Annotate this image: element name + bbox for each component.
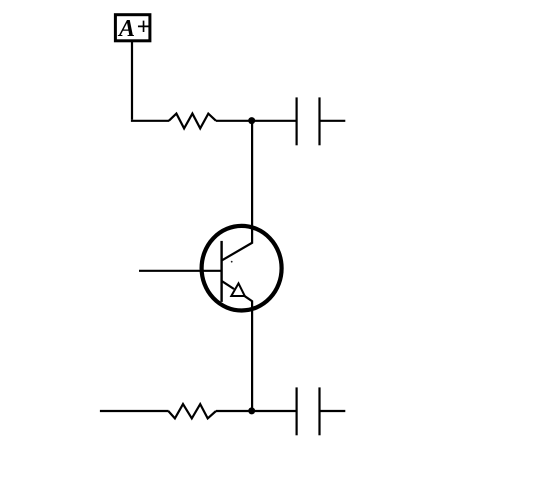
node bottom junction [248, 407, 255, 414]
node top junction [248, 117, 255, 124]
base bar [220, 241, 222, 302]
transistor Q1 [202, 226, 282, 311]
emitter diagonal upper [222, 281, 234, 289]
wire resistor R1 to node [216, 120, 252, 122]
wire node to capacitor C1 [252, 120, 296, 122]
resistor R2 [168, 404, 216, 418]
capacitor C1 [297, 97, 320, 145]
wire emitter vertical down to bottom rail [251, 301, 253, 411]
stray dot [231, 261, 233, 263]
wire capacitor C1 right lead [321, 120, 346, 122]
wire resistor R2 to node [216, 410, 252, 412]
svg-text:+: + [137, 15, 151, 41]
capacitor C2 [297, 387, 320, 435]
wire collector vertical from node into transistor [251, 121, 253, 244]
wire from A+ terminal down to top rail corner [131, 42, 133, 120]
emitter diagonal lower [245, 296, 253, 301]
emitter arrow triangle [231, 283, 245, 296]
wire capacitor C2 right lead [321, 410, 346, 412]
wire bottom rail left segment [100, 410, 169, 412]
transistor body circle [202, 226, 282, 311]
terminal A+ [115, 15, 150, 43]
collector diagonal [222, 243, 253, 261]
wire base lead [139, 270, 221, 272]
resistor R1 [169, 114, 216, 129]
wire node to capacitor C2 [252, 410, 296, 412]
svg-text:A: A [117, 16, 135, 42]
wire top rail corner to resistor R1 [131, 120, 169, 122]
